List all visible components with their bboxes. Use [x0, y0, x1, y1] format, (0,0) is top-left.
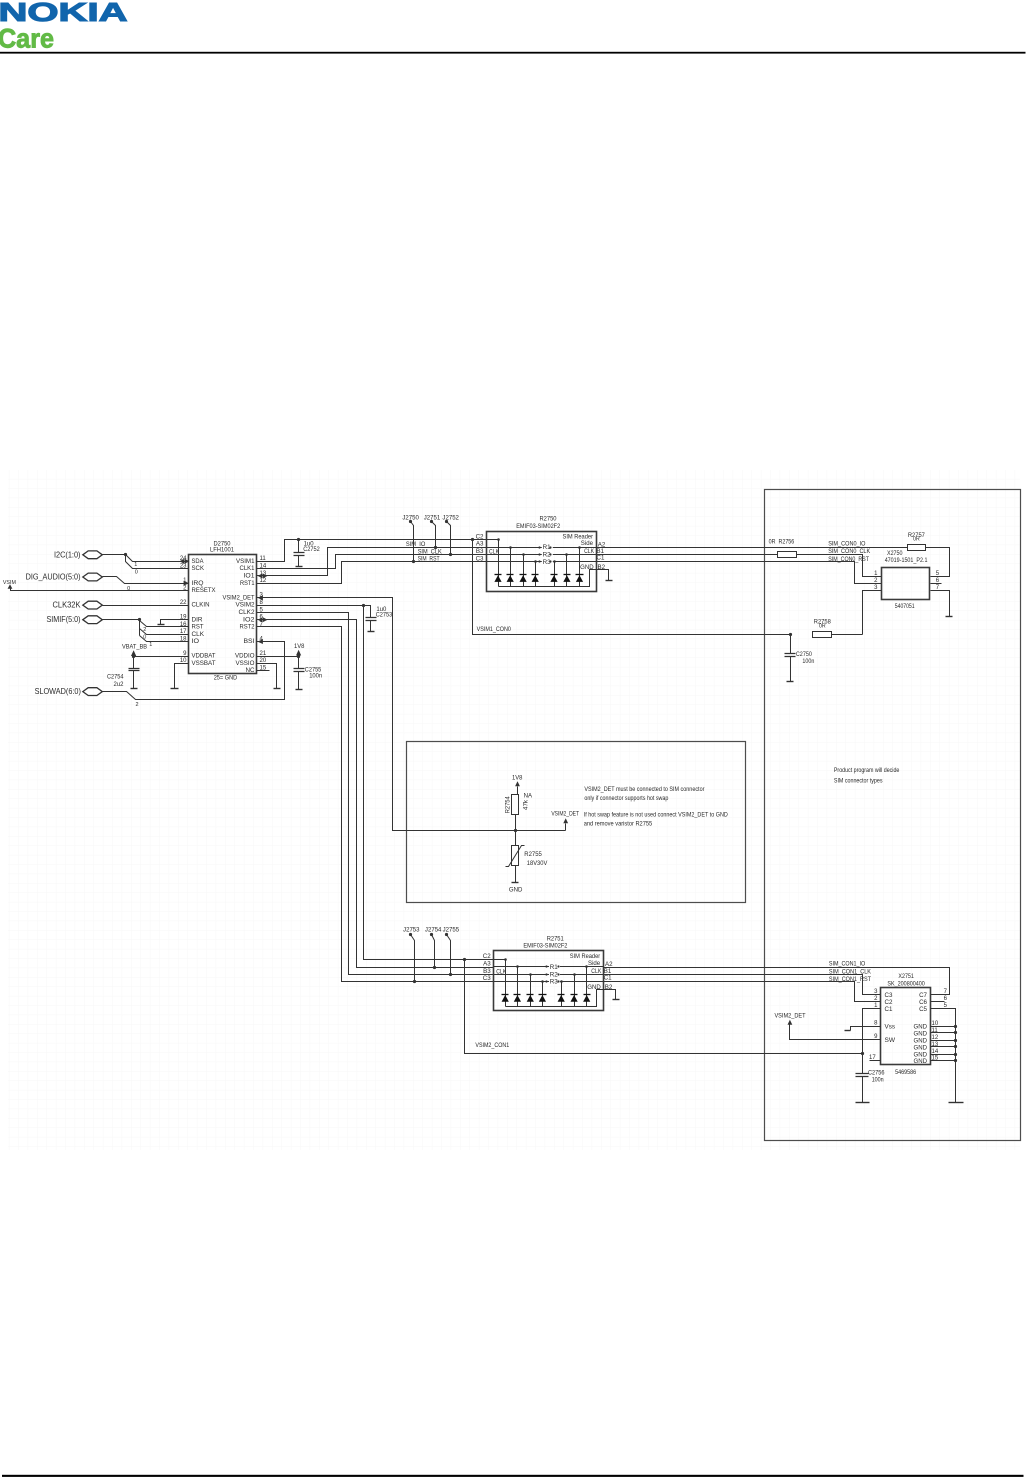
wire CLK1 to SIM_CLK — [269, 555, 487, 569]
svg-text:VSIM2_DET: VSIM2_DET — [223, 594, 255, 601]
svg-text:C2752: C2752 — [303, 547, 320, 553]
resistor R2756 0R — [778, 552, 797, 558]
svg-text:CLK: CLK — [591, 968, 602, 975]
svg-text:SIM_IO: SIM_IO — [406, 541, 426, 548]
R2751 internal resistors R1 R2 R3 — [549, 964, 560, 970]
svg-text:SIM_CON1_IO: SIM_CON1_IO — [829, 960, 865, 967]
svg-text:2u2: 2u2 — [114, 682, 125, 688]
D2750 left pin stubs — [177, 561, 189, 563]
svg-text:GND: GND — [914, 1058, 928, 1065]
wire SIM_CON0_IO — [596, 547, 908, 549]
svg-text:15: 15 — [260, 666, 267, 672]
wire IO2 vertical — [269, 620, 494, 968]
svg-text:J2752: J2752 — [442, 516, 459, 522]
ground varistor — [512, 882, 519, 884]
wire CLK32K to CLKIN — [103, 605, 177, 607]
svg-text:C2750: C2750 — [796, 652, 813, 658]
svg-text:VSIM1: VSIM1 — [236, 558, 255, 565]
svg-text:R2754: R2754 — [505, 796, 511, 814]
capacitor C2750 — [789, 633, 792, 636]
capacitor C2752 — [297, 538, 300, 541]
svg-text:0R: 0R — [913, 536, 920, 542]
svg-text:5407051: 5407051 — [895, 603, 915, 610]
ground tick Vss — [845, 1030, 851, 1032]
wire SIM_CON1_RST — [604, 982, 881, 1002]
ground tick DIR — [158, 624, 165, 626]
svg-text:25= GND: 25= GND — [214, 674, 238, 681]
wire SW to VSIM2_DET — [790, 1025, 881, 1040]
wire bit1 to IO — [140, 636, 177, 642]
svg-text:VSIM2_DET: VSIM2_DET — [774, 1012, 805, 1019]
svg-text:SIM_CON1_CLK: SIM_CON1_CLK — [829, 968, 872, 975]
wire SLOWAD to BSI — [103, 642, 285, 700]
svg-text:VBAT_BB: VBAT_BB — [122, 645, 147, 651]
wire VSSBAT to ground — [175, 664, 177, 689]
svg-text:21: 21 — [260, 651, 267, 657]
svg-text:and remove varistor R2755: and remove varistor R2755 — [584, 820, 653, 827]
svg-text:Side: Side — [581, 540, 594, 547]
svg-text:GND: GND — [509, 886, 523, 893]
svg-text:B3: B3 — [483, 968, 491, 975]
svg-text:11: 11 — [260, 556, 267, 562]
svg-text:10: 10 — [180, 658, 187, 664]
R2750 diode ground rail to B2 — [499, 570, 596, 587]
svg-text:BSI: BSI — [244, 638, 255, 645]
svg-text:GND: GND — [914, 1037, 928, 1044]
svg-text:0: 0 — [135, 569, 138, 575]
svg-text:22: 22 — [180, 600, 187, 606]
svg-text:23: 23 — [180, 564, 187, 570]
svg-text:SLOWAD(6:0): SLOWAD(6:0) — [35, 686, 81, 696]
connector X2751 body — [881, 988, 931, 1065]
svg-text:SIM connector types: SIM connector types — [834, 778, 883, 785]
svg-text:RST: RST — [192, 624, 204, 631]
wire SIM_CON1_CLK — [604, 975, 881, 995]
svg-text:IO: IO — [192, 638, 200, 645]
wire VDDIO to 1V8 — [269, 656, 299, 658]
svg-text:SW: SW — [885, 1037, 896, 1044]
wire RESETX to VSIM — [11, 589, 177, 591]
svg-text:CLK1: CLK1 — [240, 565, 255, 572]
svg-text:J2753: J2753 — [403, 928, 420, 934]
svg-text:R1: R1 — [543, 544, 552, 551]
EMI filter R2751 EMIF03-SIM02F2 body — [494, 951, 604, 1011]
svg-text:RST2: RST2 — [240, 624, 255, 631]
EMI filter R2750 EMIF03-SIM02F2 body — [487, 532, 597, 592]
svg-text:R2750: R2750 — [540, 516, 558, 523]
svg-text:C3: C3 — [483, 975, 491, 982]
SIM connector area frame — [765, 490, 1021, 1141]
svg-text:C2753: C2753 — [376, 612, 393, 618]
D2750 right pin stubs — [257, 561, 269, 563]
R2751 internal lines — [494, 959, 506, 961]
capacitor C2755 — [298, 657, 300, 669]
R2750 ESD diodes — [498, 540, 500, 587]
svg-text:20: 20 — [260, 658, 267, 664]
X2750 pin 3 wire to R2758 — [863, 591, 882, 635]
D2750 NC pin 15 stub — [257, 670, 270, 672]
svg-text:C3: C3 — [885, 992, 893, 999]
svg-text:NA: NA — [524, 793, 533, 800]
wire DIR tie-down — [161, 620, 177, 625]
svg-text:C6: C6 — [919, 999, 927, 1006]
svg-text:2: 2 — [143, 627, 146, 633]
svg-text:100n: 100n — [802, 659, 814, 665]
svg-text:C5: C5 — [919, 1006, 927, 1013]
wire bit2 to RST — [140, 621, 177, 627]
svg-text:VSIM: VSIM — [3, 580, 16, 586]
svg-text:VSIM1_CON0: VSIM1_CON0 — [477, 626, 512, 633]
R2751 diode ground rail to B2 — [506, 990, 604, 1007]
svg-text:IRQ: IRQ — [192, 580, 204, 587]
svg-text:SIM_CON1_RST: SIM_CON1_RST — [829, 976, 871, 983]
svg-text:SIM_CLK: SIM_CLK — [418, 548, 443, 555]
wire CLK2 vertical — [269, 613, 494, 975]
svg-text:A3: A3 — [476, 541, 484, 548]
pin IRQ arrow — [184, 581, 189, 586]
svg-text:0R R2756: 0R R2756 — [769, 539, 795, 546]
pin SDA bidirectional arrow — [179, 559, 184, 564]
hot-swap note box — [407, 742, 746, 903]
IC D2750 LFH1001 body — [189, 555, 257, 674]
wire RST2 vertical — [269, 627, 494, 982]
svg-text:CLK2: CLK2 — [239, 609, 255, 616]
svg-text:VSIM2_DET: VSIM2_DET — [551, 811, 579, 818]
svg-text:R3: R3 — [543, 559, 552, 566]
svg-text:SIM_CON0_RST: SIM_CON0_RST — [828, 556, 869, 563]
svg-text:1V8: 1V8 — [294, 644, 305, 650]
svg-text:Care: Care — [0, 23, 54, 53]
capacitor C2753 — [364, 606, 371, 618]
svg-text:GND: GND — [914, 1030, 928, 1037]
svg-text:CLK32K: CLK32K — [53, 599, 81, 609]
svg-text:NC: NC — [246, 667, 255, 674]
X2751 pin C6 stub — [931, 1001, 945, 1003]
ground C2750 — [787, 681, 794, 683]
svg-text:R2: R2 — [543, 552, 552, 559]
svg-text:C1: C1 — [597, 555, 605, 562]
X2751 Vss tie-down — [851, 1027, 881, 1031]
svg-text:R2: R2 — [550, 971, 559, 978]
wire VSIM2 vertical — [269, 606, 494, 960]
svg-text:47019-1501_P2.1: 47019-1501_P2.1 — [885, 557, 928, 564]
wire VSIM2_DET from pin 3 — [263, 598, 566, 831]
svg-text:If hot swap feature is not use: If hot swap feature is not used connect … — [584, 811, 729, 818]
capacitor C2754 — [133, 657, 135, 669]
svg-text:1V8: 1V8 — [512, 776, 523, 782]
svg-text:Product program will decide: Product program will decide — [834, 767, 900, 774]
svg-text:X2750: X2750 — [887, 550, 903, 557]
svg-text:VSIM2_DET must be connected to: VSIM2_DET must be connected to SIM conne… — [584, 786, 704, 793]
pin BSI arrow — [258, 639, 263, 644]
R2750 B2 ground stub — [596, 570, 609, 581]
R2750 internal resistors R1 R2 R3 — [542, 544, 553, 550]
svg-text:18: 18 — [180, 637, 187, 643]
X2750 pin 7 to ground — [931, 591, 950, 617]
wire I2C to SDA/SCK split — [103, 554, 126, 556]
X2751 pin 17 stub — [870, 1060, 881, 1062]
svg-text:SIMIF(5:0): SIMIF(5:0) — [47, 614, 81, 624]
X2751 pin C1 wire down to C2756 — [863, 1009, 881, 1074]
svg-text:1: 1 — [149, 642, 152, 648]
svg-text:C7: C7 — [919, 992, 927, 999]
ground C2756 — [856, 1102, 870, 1104]
svg-text:R2751: R2751 — [547, 935, 565, 942]
ground C2753 — [368, 631, 375, 633]
resistor R2754 47k NA — [512, 795, 519, 815]
svg-text:X2751: X2751 — [898, 973, 914, 980]
svg-text:SK_200800400: SK_200800400 — [887, 980, 925, 987]
svg-text:GND: GND — [914, 1044, 928, 1051]
svg-text:VDDIO: VDDIO — [235, 653, 255, 660]
X2751 C5 and GND rail — [931, 1009, 956, 1103]
varistor R2755 18V30V — [515, 831, 517, 846]
svg-text:SIM_CON0_IO: SIM_CON0_IO — [828, 540, 865, 547]
svg-text:RESETX: RESETX — [192, 587, 217, 594]
wire SIMIF bus spine — [103, 620, 140, 636]
svg-text:IO1: IO1 — [244, 573, 255, 580]
ground VSSBAT — [171, 688, 179, 690]
pin IO1 bidirectional arrow — [258, 574, 263, 579]
wire VSIM1 to filter C2 and VSIM1_CON0 drop — [269, 540, 487, 562]
svg-text:IO2: IO2 — [243, 616, 255, 623]
svg-text:I2C(1:0): I2C(1:0) — [54, 549, 81, 559]
svg-text:CLK: CLK — [192, 631, 205, 638]
svg-text:100n: 100n — [309, 673, 322, 679]
wire VSIM2_CON1 — [463, 958, 466, 961]
wire bit0 to CLK — [140, 629, 177, 635]
svg-text:VSSIO: VSSIO — [236, 660, 255, 667]
ground C2752 — [296, 566, 303, 568]
svg-text:LFH1001: LFH1001 — [210, 547, 235, 554]
svg-text:2: 2 — [135, 702, 138, 708]
svg-text:47k: 47k — [523, 799, 529, 810]
header rule — [0, 52, 1026, 54]
svg-text:VSIM2_CON1: VSIM2_CON1 — [475, 1042, 509, 1049]
svg-text:SCK: SCK — [192, 565, 205, 572]
wire IO1 to SIM_IO — [269, 548, 487, 576]
svg-text:C3: C3 — [476, 555, 484, 562]
svg-text:C1: C1 — [885, 1006, 893, 1013]
svg-text:19: 19 — [180, 615, 187, 621]
svg-text:12: 12 — [932, 1035, 939, 1041]
capacitor C2756 — [856, 1074, 869, 1077]
svg-text:VSIM2: VSIM2 — [236, 602, 255, 609]
R2750 internal lines — [487, 539, 499, 541]
svg-text:C2754: C2754 — [107, 675, 124, 681]
svg-text:EMIF03-SIM02F2: EMIF03-SIM02F2 — [516, 523, 561, 530]
svg-text:C2: C2 — [483, 953, 491, 960]
svg-text:100n: 100n — [872, 1078, 884, 1084]
resistor R2758 0R — [813, 632, 832, 638]
svg-text:C2: C2 — [476, 533, 484, 540]
svg-text:16: 16 — [180, 622, 187, 628]
svg-text:C2: C2 — [885, 999, 893, 1006]
svg-text:VSSBAT: VSSBAT — [192, 660, 216, 667]
svg-text:CLKIN: CLKIN — [192, 602, 210, 609]
svg-text:12: 12 — [260, 578, 267, 584]
footer rule — [2, 1475, 1024, 1477]
svg-text:C2755: C2755 — [305, 667, 322, 673]
svg-text:5469586: 5469586 — [895, 1069, 916, 1076]
svg-text:C2756: C2756 — [868, 1071, 885, 1077]
pin IO2 bidirectional arrow — [258, 617, 263, 622]
svg-text:0R: 0R — [819, 624, 826, 630]
svg-text:J2755: J2755 — [443, 928, 460, 934]
svg-text:GND: GND — [914, 1023, 928, 1030]
svg-text:DIG_AUDIO(5:0): DIG_AUDIO(5:0) — [26, 571, 81, 581]
svg-text:C1: C1 — [604, 975, 612, 982]
ground C2754 — [131, 688, 138, 690]
ground C2755 — [296, 689, 303, 691]
svg-text:DIR: DIR — [192, 616, 203, 623]
svg-text:SIM_CON0_CLK: SIM_CON0_CLK — [828, 548, 871, 555]
wire SIM_CON0_CLK — [596, 554, 778, 556]
svg-text:J2754: J2754 — [425, 928, 442, 934]
resistor R2757 0R — [908, 545, 926, 551]
svg-text:SDA: SDA — [192, 558, 205, 565]
ground X2750 pin7 — [946, 616, 953, 618]
pin VSIM2_DET arrow — [258, 595, 263, 600]
svg-text:14: 14 — [260, 564, 267, 570]
ground GND rail — [949, 1102, 964, 1104]
svg-text:18V30V: 18V30V — [527, 860, 548, 867]
svg-text:R2755: R2755 — [524, 851, 542, 858]
wire VSSIO to ground — [269, 664, 277, 689]
svg-text:SIM_RST: SIM_RST — [418, 556, 440, 563]
svg-text:B3: B3 — [476, 548, 484, 555]
wire SIM_CON0_RST — [596, 562, 882, 584]
wire RST1 to SIM_RST — [269, 562, 487, 584]
svg-text:only if connector supports hot: only if connector supports hot swap — [584, 795, 668, 802]
svg-text:10: 10 — [932, 1021, 939, 1027]
svg-text:RST1: RST1 — [240, 580, 255, 587]
ground VSSIO — [274, 688, 281, 690]
connector X2750 body — [882, 568, 930, 600]
wire VSIM1_CON0 — [471, 538, 474, 541]
svg-text:VDDBAT: VDDBAT — [192, 653, 216, 660]
svg-text:EMIF03-SIM02F2: EMIF03-SIM02F2 — [523, 943, 568, 950]
R2751 ESD diodes — [505, 960, 507, 1007]
svg-text:14: 14 — [932, 1049, 939, 1055]
X2750 pin 6 stub — [931, 583, 942, 585]
wire SIM_CON1_IO — [604, 968, 950, 995]
svg-text:A3: A3 — [483, 960, 491, 967]
svg-text:0: 0 — [143, 635, 146, 641]
svg-text:17: 17 — [180, 629, 187, 635]
svg-text:Vss: Vss — [885, 1023, 896, 1030]
wire DIG_AUDIO to IRQ — [103, 577, 184, 584]
R2751 B2 ground stub — [604, 990, 616, 1000]
svg-text:Side: Side — [588, 960, 601, 967]
svg-text:R1: R1 — [550, 964, 559, 971]
svg-text:R3: R3 — [550, 979, 559, 986]
svg-text:1: 1 — [134, 562, 137, 568]
wire VBAT_BB to VDDBAT — [134, 656, 177, 658]
